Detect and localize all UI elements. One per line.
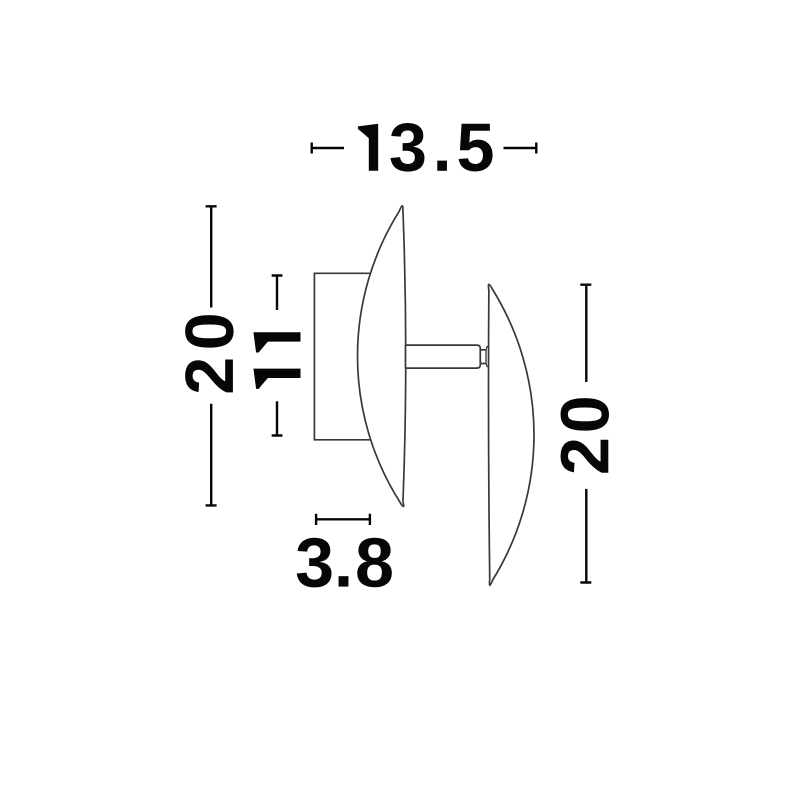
dimension 13.5 line right segment — [504, 143, 537, 154]
dimension 11 line bottom segment — [272, 401, 283, 435]
dimension 20 right line top segment — [580, 285, 591, 382]
dimension 13.5 line left segment — [312, 143, 344, 154]
shade disc front (large) — [358, 206, 406, 507]
dimension 20 right label — [561, 398, 609, 473]
dimension 3.8 label — [297, 538, 392, 588]
wall mount plate — [314, 273, 371, 440]
arm rod — [406, 345, 481, 368]
dimension 20 left line bottom segment — [206, 404, 217, 506]
shade disc back (small) — [488, 284, 534, 585]
arm neck — [480, 350, 486, 364]
dimension 11 line top segment — [272, 276, 283, 311]
dimension 20 right line bottom segment — [580, 489, 591, 583]
dimension 11 label — [253, 332, 300, 389]
dimension 13.5 label — [358, 123, 493, 172]
dimension 20 left line top segment — [206, 206, 217, 307]
arm collar bell — [486, 346, 489, 366]
dimension 3.8 line — [316, 514, 370, 525]
dimension 20 left label — [185, 315, 233, 392]
